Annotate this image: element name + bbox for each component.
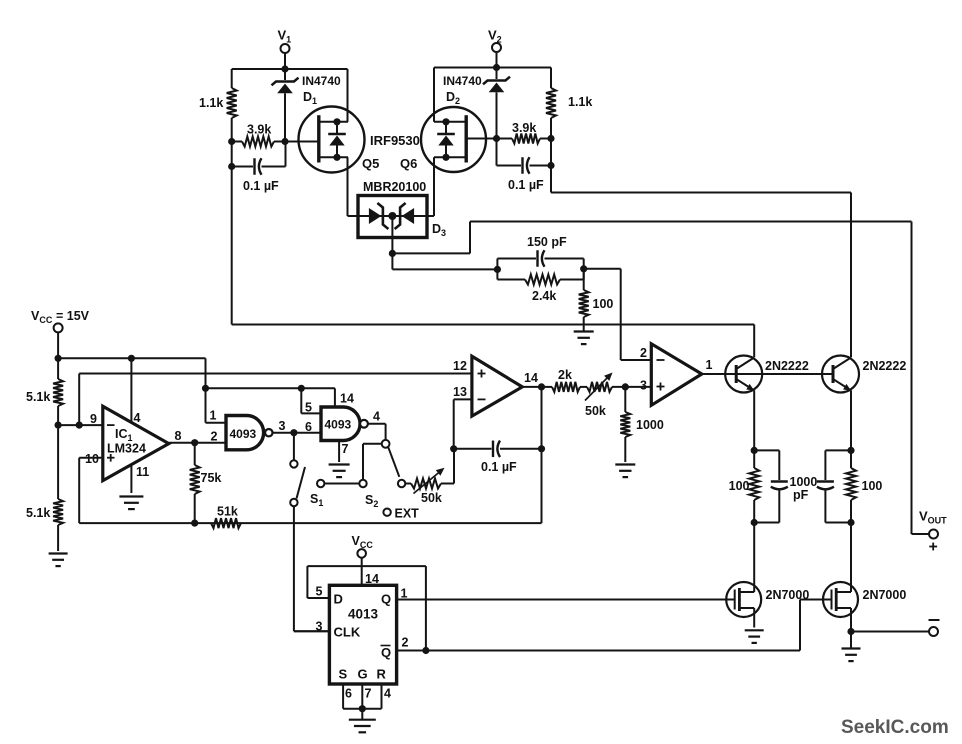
svg-text:4093: 4093: [325, 418, 352, 432]
svg-text:0.1 µF: 0.1 µF: [243, 179, 279, 193]
svg-text:Q6: Q6: [400, 156, 417, 171]
svg-text:1.1k: 1.1k: [568, 95, 592, 109]
svg-text:6: 6: [305, 420, 312, 434]
svg-text:4: 4: [384, 687, 391, 701]
svg-text:Q5: Q5: [362, 156, 379, 171]
svg-text:5: 5: [305, 401, 312, 415]
svg-text:2N2222: 2N2222: [765, 359, 809, 373]
svg-text:1: 1: [706, 358, 713, 372]
svg-text:2.4k: 2.4k: [532, 289, 556, 303]
svg-text:1.1k: 1.1k: [199, 96, 223, 110]
svg-text:6: 6: [345, 687, 352, 701]
svg-text:pF: pF: [793, 488, 809, 502]
svg-text:EXT: EXT: [395, 507, 420, 521]
svg-text:7: 7: [342, 442, 349, 456]
svg-text:150 pF: 150 pF: [527, 235, 567, 249]
svg-text:3.9k: 3.9k: [512, 121, 536, 135]
svg-text:= 15V: = 15V: [56, 309, 90, 323]
svg-text:D: D: [334, 592, 343, 607]
svg-text:4: 4: [373, 410, 380, 424]
svg-text:G: G: [358, 667, 368, 682]
svg-text:S: S: [339, 667, 348, 682]
svg-text:51k: 51k: [217, 505, 238, 519]
svg-text:LM324: LM324: [107, 442, 146, 456]
svg-text:IN4740: IN4740: [443, 74, 482, 88]
svg-text:Q: Q: [381, 645, 391, 660]
svg-text:3: 3: [316, 620, 323, 634]
svg-text:3: 3: [279, 419, 286, 433]
svg-text:5: 5: [316, 585, 323, 599]
svg-text:2: 2: [402, 636, 409, 650]
svg-text:2N7000: 2N7000: [863, 588, 907, 602]
svg-text:CLK: CLK: [334, 625, 361, 640]
svg-text:50k: 50k: [421, 491, 442, 505]
svg-text:14: 14: [524, 371, 538, 385]
svg-text:8: 8: [175, 429, 182, 443]
svg-text:5.1k: 5.1k: [26, 390, 50, 404]
svg-text:4093: 4093: [230, 427, 257, 441]
svg-text:1: 1: [210, 409, 217, 423]
svg-text:R: R: [377, 667, 387, 682]
svg-text:SeekIC.com: SeekIC.com: [841, 717, 949, 738]
svg-text:1000: 1000: [790, 475, 818, 489]
svg-text:2k: 2k: [558, 368, 572, 382]
svg-text:2N2222: 2N2222: [863, 359, 907, 373]
svg-text:Q: Q: [381, 592, 391, 607]
svg-text:9: 9: [90, 412, 97, 426]
svg-text:100: 100: [729, 479, 750, 493]
svg-text:14: 14: [365, 572, 379, 586]
svg-text:IRF9530: IRF9530: [370, 133, 420, 148]
svg-text:7: 7: [365, 687, 372, 701]
svg-text:IN4740: IN4740: [302, 74, 341, 88]
svg-text:50k: 50k: [585, 404, 606, 418]
svg-text:3: 3: [640, 379, 647, 393]
svg-text:2: 2: [211, 430, 218, 444]
svg-text:2: 2: [640, 346, 647, 360]
svg-text:100: 100: [593, 297, 614, 311]
svg-text:14: 14: [340, 392, 354, 406]
svg-text:3.9k: 3.9k: [247, 123, 271, 137]
svg-text:100: 100: [862, 479, 883, 493]
svg-text:1: 1: [401, 587, 408, 601]
svg-text:12: 12: [453, 359, 467, 373]
svg-text:4: 4: [134, 411, 141, 425]
svg-text:5.1k: 5.1k: [26, 506, 50, 520]
svg-text:11: 11: [136, 465, 149, 479]
svg-text:0.1 µF: 0.1 µF: [481, 460, 517, 474]
svg-text:1000: 1000: [636, 418, 664, 432]
svg-text:0.1 µF: 0.1 µF: [508, 178, 544, 192]
svg-text:75k: 75k: [201, 471, 222, 485]
svg-text:10: 10: [85, 452, 99, 466]
svg-text:4013: 4013: [348, 607, 379, 622]
svg-text:MBR20100: MBR20100: [363, 180, 426, 194]
svg-text:13: 13: [453, 385, 467, 399]
